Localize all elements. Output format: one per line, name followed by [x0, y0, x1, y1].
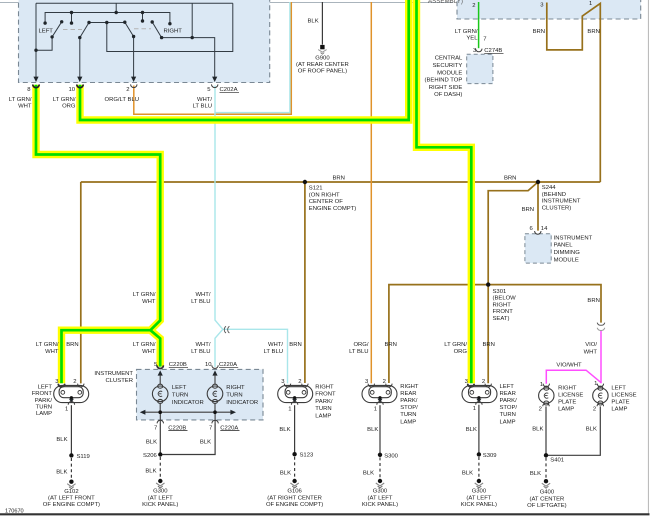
- pin 1 cap: [377, 402, 383, 405]
- svg-text:TURN: TURN: [315, 406, 331, 412]
- svg-text:G300: G300: [373, 489, 388, 495]
- svg-text:FRONT: FRONT: [32, 391, 53, 397]
- entry arrow right: [212, 370, 217, 375]
- wire BLK to G900: [321, 2, 323, 45]
- wire BRN main run S121/S244: [81, 181, 601, 183]
- svg-text:LT GRN/: LT GRN/: [53, 97, 76, 103]
- pin 2 cup: [302, 384, 308, 387]
- pin 1 cup: [543, 384, 549, 387]
- svg-text:WHT/: WHT/: [197, 97, 212, 103]
- svg-text:STOP/: STOP/: [500, 405, 518, 411]
- wire BRN multifunction switch pins 3/1 loop down to S244: [547, 3, 601, 183]
- svg-text:BRN: BRN: [587, 298, 599, 304]
- svg-text:WHT: WHT: [45, 349, 59, 355]
- svg-text:(AT CENTER: (AT CENTER: [529, 496, 564, 502]
- common junction dot: [70, 396, 73, 399]
- connector C202A pin 5 cup: [212, 84, 218, 87]
- svg-text:PARK/: PARK/: [35, 398, 53, 404]
- connector C202A pin 10 cup: [77, 84, 83, 87]
- svg-text:G102: G102: [64, 489, 78, 495]
- filament left: [61, 391, 65, 395]
- svg-text:WHT: WHT: [142, 299, 156, 305]
- wire BRN S301 branch to right rear lamp pin 2 and license feed: [389, 285, 601, 383]
- svg-text:BRN: BRN: [522, 207, 534, 213]
- splice S401: [544, 453, 548, 457]
- svg-text:BLK: BLK: [308, 19, 319, 25]
- svg-text:RIGHT SIDE: RIGHT SIDE: [429, 85, 463, 91]
- svg-text:INSTRUMENT: INSTRUMENT: [542, 199, 581, 205]
- svg-text:7: 7: [483, 37, 486, 43]
- top loop: [598, 386, 603, 390]
- svg-text:2: 2: [482, 379, 485, 385]
- svg-text:5: 5: [207, 87, 211, 93]
- ground G900: [318, 45, 326, 54]
- turn signal switch box (top left): [19, 0, 270, 83]
- svg-text:CLUSTER): CLUSTER): [542, 205, 571, 211]
- svg-text:BLK: BLK: [200, 439, 211, 445]
- svg-text:S309: S309: [483, 453, 497, 459]
- switch blade center (pin 10): [80, 23, 89, 81]
- connector C274B cup: [476, 49, 482, 52]
- filament right: [78, 391, 82, 395]
- svg-text:LAMP: LAMP: [500, 419, 516, 425]
- filament: [544, 393, 548, 398]
- svg-text:TURN: TURN: [36, 404, 52, 410]
- filament right: [386, 391, 390, 395]
- wire BLK S123 to G106 (dashed): [294, 457, 296, 479]
- svg-text:LICENSE: LICENSE: [558, 393, 583, 399]
- svg-text:BLK: BLK: [145, 469, 156, 475]
- svg-text:YEL: YEL: [466, 36, 478, 42]
- svg-text:ORG: ORG: [62, 104, 76, 110]
- instrument panel dimming module box: [525, 234, 551, 263]
- svg-text:G900: G900: [315, 56, 330, 62]
- svg-text:DIMMING: DIMMING: [554, 250, 581, 256]
- wire: B contact stub: [142, 13, 144, 22]
- svg-text:WHT: WHT: [18, 104, 32, 110]
- junction dot left: [158, 410, 162, 414]
- filament right: [485, 391, 489, 395]
- svg-text:1: 1: [288, 407, 291, 413]
- svg-text:KICK PANEL): KICK PANEL): [461, 502, 497, 508]
- pin 1 cup: [597, 384, 603, 387]
- svg-text:(BEHIND TOP: (BEHIND TOP: [425, 78, 463, 84]
- wire: bus line B: [45, 13, 170, 24]
- svg-text:LT BLU: LT BLU: [264, 349, 283, 355]
- pin 3 cup: [284, 384, 290, 387]
- out arrow: [292, 399, 297, 403]
- pin 2 cup: [386, 384, 392, 387]
- heavy cap pin 8: [33, 85, 39, 88]
- wire BRN S244 jog down to S301 and left rear lamp pin 2: [488, 182, 538, 383]
- wire to left turn indicator: [159, 375, 161, 384]
- svg-text:PLATE: PLATE: [611, 400, 629, 406]
- svg-text:G300: G300: [472, 489, 487, 495]
- svg-text:BLK: BLK: [532, 427, 543, 433]
- svg-text:LT GRN/: LT GRN/: [9, 97, 32, 103]
- svg-text:BLK: BLK: [462, 471, 473, 477]
- svg-text:BLK: BLK: [56, 470, 67, 476]
- svg-text:LAMP: LAMP: [36, 411, 52, 417]
- page bottom border: [0, 513, 650, 515]
- wire: A-B tie: [115, 3, 117, 12]
- common junction dot: [378, 396, 381, 399]
- svg-text:BLK: BLK: [466, 427, 477, 433]
- pin 1 cap: [291, 402, 297, 405]
- svg-text:CENTRAL: CENTRAL: [435, 56, 463, 62]
- svg-text:LT BLU: LT BLU: [191, 299, 210, 305]
- svg-text:10: 10: [205, 362, 212, 368]
- svg-text:S121: S121: [309, 186, 323, 192]
- svg-text:OF ROOF PANEL): OF ROOF PANEL): [298, 69, 347, 75]
- svg-text:1: 1: [65, 407, 68, 413]
- wire BLK S300 to G300 (dashed): [379, 457, 381, 478]
- svg-text:6: 6: [530, 226, 534, 232]
- left turn indicator bulb: [152, 386, 168, 402]
- junction dot right: [213, 410, 217, 414]
- svg-text:WHT/: WHT/: [268, 342, 283, 348]
- svg-text:FRONT: FRONT: [493, 309, 514, 315]
- svg-text:2: 2: [383, 379, 386, 385]
- wire BRN S244 to dimming module: [537, 182, 539, 231]
- svg-text:170670: 170670: [5, 509, 24, 515]
- svg-text:ASSEMBLY): ASSEMBLY): [428, 0, 463, 5]
- svg-text:LEFT: LEFT: [172, 385, 187, 391]
- svg-text:LEFT: LEFT: [39, 29, 54, 35]
- svg-text:2: 2: [298, 379, 301, 385]
- switch blade to pin 2: [125, 22, 134, 80]
- svg-text:TURN: TURN: [500, 412, 516, 418]
- svg-text:OF DASH): OF DASH): [434, 92, 462, 98]
- svg-text:G300: G300: [153, 489, 168, 495]
- ground G400: [542, 479, 550, 488]
- svg-text:BLK: BLK: [279, 427, 290, 433]
- dimming module pin 14 cup: [535, 231, 541, 234]
- svg-text:RIGHT: RIGHT: [558, 386, 577, 392]
- wire BLK S119 to G102 (dashed): [70, 458, 72, 479]
- connector C220A pin 10 cup: [212, 365, 218, 368]
- switch contact dots: [34, 11, 194, 52]
- pin 1 cap: [476, 402, 482, 405]
- pin 3 cup: [58, 384, 64, 387]
- pin 3 cup: [468, 384, 474, 387]
- lamp inner envelope: [369, 387, 391, 398]
- common junction dot: [477, 396, 480, 399]
- svg-text:MODULE: MODULE: [437, 70, 462, 76]
- out arrow: [378, 399, 383, 403]
- top loop: [213, 384, 218, 388]
- svg-text:LT BLU: LT BLU: [349, 349, 368, 355]
- svg-text:BLK: BLK: [146, 439, 157, 445]
- svg-text:LAMP: LAMP: [558, 407, 574, 413]
- svg-text:LT GRN/: LT GRN/: [133, 292, 156, 298]
- wire: center contact bar: [89, 22, 125, 24]
- svg-text:CENTER OF: CENTER OF: [309, 199, 343, 205]
- switch blade LEFT: [36, 22, 62, 50]
- common junction dot: [293, 396, 296, 399]
- wire BLK right rear lamp to S300: [379, 405, 381, 455]
- svg-text:RIGHT: RIGHT: [315, 384, 334, 390]
- wire: B contact stub: [71, 13, 73, 24]
- svg-text:BLK: BLK: [530, 471, 541, 477]
- heavy cap cluster pin 5: [157, 366, 163, 369]
- wire LT GRN/ORG pin 10 to top: [80, 0, 409, 120]
- wire VIO/WHT to left license lamp: [600, 331, 602, 384]
- central security module box: [467, 54, 493, 83]
- wire LT GRN/YEL to C274B: [478, 2, 480, 48]
- svg-text:10: 10: [68, 87, 75, 93]
- splice S244: [536, 180, 540, 184]
- svg-text:INDICATOR: INDICATOR: [172, 400, 204, 406]
- splice S300: [378, 453, 382, 457]
- svg-text:LEFT: LEFT: [611, 386, 626, 392]
- arrow left: [140, 410, 146, 415]
- out arrow: [69, 399, 74, 403]
- svg-text:BRN: BRN: [483, 342, 495, 348]
- svg-text:S123: S123: [300, 453, 314, 459]
- svg-text:INDICATOR: INDICATOR: [226, 400, 258, 406]
- svg-text:TURN: TURN: [400, 412, 416, 418]
- svg-text:RIGHT: RIGHT: [400, 384, 419, 390]
- svg-text:REAR: REAR: [500, 391, 516, 397]
- wire ORG/LT BLU from pin 2 up to top: [134, 2, 291, 114]
- svg-text:BLK: BLK: [280, 471, 291, 477]
- highlighted LT GRN wires: yellow halo: [36, 0, 471, 383]
- pin 2 cap: [543, 403, 549, 406]
- lamp inner envelope: [59, 387, 83, 398]
- filament: [598, 393, 602, 398]
- filament left: [286, 391, 290, 395]
- bottom loop: [544, 401, 549, 405]
- svg-text:S401: S401: [550, 458, 564, 464]
- splice S309: [477, 452, 481, 456]
- svg-text:PANEL: PANEL: [554, 243, 574, 249]
- svg-text:SECURITY: SECURITY: [433, 63, 463, 69]
- wire: pin 8 feed drop: [35, 3, 37, 80]
- wire: A drop to right blade common: [191, 3, 193, 37]
- bulb body: [593, 388, 608, 403]
- svg-text:(AT LEFT: (AT LEFT: [466, 495, 491, 501]
- wire below right bulb: [214, 403, 216, 412]
- svg-text:2: 2: [126, 87, 129, 93]
- svg-text:LT BLU: LT BLU: [193, 104, 212, 110]
- svg-text:VIO/WHT: VIO/WHT: [556, 363, 582, 369]
- connector C220B pin 7 cap: [157, 420, 163, 423]
- splice S119: [69, 453, 73, 457]
- svg-text:OF ENGINE COMPT): OF ENGINE COMPT): [266, 502, 323, 508]
- svg-text:BRN: BRN: [504, 176, 516, 182]
- instrument cluster box: [137, 369, 264, 420]
- svg-text:2: 2: [593, 406, 596, 412]
- wire: A right end drop and return to center contact: [107, 3, 233, 51]
- ground G300 (right rear): [376, 479, 384, 488]
- svg-text:ORG/LT BLU: ORG/LT BLU: [105, 97, 139, 103]
- svg-text:7: 7: [209, 425, 212, 431]
- highlight: pin 8 circuit: [36, 85, 160, 383]
- lamp inner envelope: [285, 387, 307, 398]
- svg-text:1: 1: [374, 407, 377, 413]
- wire right pin 7 drop: [214, 412, 216, 424]
- svg-text:FRONT: FRONT: [315, 392, 336, 398]
- top loop: [158, 384, 163, 388]
- filament left: [370, 391, 374, 395]
- ground G300 (left rear): [475, 479, 483, 488]
- svg-text:SEAT): SEAT): [493, 316, 510, 322]
- svg-text:WHT/: WHT/: [195, 342, 210, 348]
- lamp body: [278, 385, 313, 402]
- wire to right turn indicator: [214, 375, 216, 384]
- svg-text:BRN: BRN: [533, 29, 545, 35]
- svg-text:S244: S244: [542, 185, 556, 191]
- splice S121: [303, 180, 307, 184]
- wire BLK left front lamp to S119: [70, 405, 72, 455]
- wire BLK left license lamp to S401: [548, 406, 600, 455]
- svg-text:REAR: REAR: [400, 391, 416, 397]
- svg-text:STOP/: STOP/: [400, 405, 418, 411]
- connector C220B pin 5 cup: [157, 365, 163, 368]
- svg-text:G400: G400: [540, 490, 555, 496]
- svg-text:S119: S119: [77, 454, 90, 460]
- svg-text:BLK: BLK: [363, 470, 374, 476]
- svg-text:CLUSTER: CLUSTER: [106, 378, 134, 384]
- svg-text:ORG/: ORG/: [353, 342, 368, 348]
- svg-text:TURN: TURN: [226, 393, 242, 399]
- entry arrow left: [158, 370, 163, 375]
- svg-text:LT GRN/: LT GRN/: [133, 342, 156, 348]
- wire BRN S121 to right front park lamp pin 2: [304, 182, 306, 383]
- splice S301: [486, 282, 490, 286]
- pin 2 cup: [78, 384, 84, 387]
- splice S206: [158, 452, 162, 456]
- wire BLK right license lamp to S401: [545, 406, 547, 455]
- bulb body: [539, 388, 554, 403]
- svg-text:BLK: BLK: [56, 437, 67, 443]
- svg-text:1: 1: [594, 381, 597, 387]
- cut line across top of page: [0, 2, 453, 4]
- wire: bus line A: [36, 2, 233, 4]
- wire WHT/LT BLU from pin 5 down with split to cluster pin 10: [215, 86, 288, 384]
- svg-text:(AT REAR CENTER: (AT REAR CENTER: [296, 62, 349, 68]
- pin 2 cap: [597, 403, 603, 406]
- svg-text:2: 2: [73, 379, 76, 385]
- svg-text:WHT: WHT: [584, 350, 598, 356]
- svg-text:(BELOW: (BELOW: [493, 296, 517, 302]
- wire BLK right front lamp to S123: [294, 405, 296, 454]
- svg-text:LT GRN/: LT GRN/: [36, 342, 59, 348]
- pin 3 cup: [368, 384, 374, 387]
- WHT/LT BLU split chevron: [224, 326, 229, 333]
- wire BRN to left front park lamp pin 2: [80, 182, 82, 383]
- heavy cap left front pin 3: [58, 384, 64, 387]
- wire below left bulb: [159, 403, 161, 412]
- svg-text:(AT LEFT FRONT: (AT LEFT FRONT: [48, 496, 95, 502]
- svg-text:(AT LEFT: (AT LEFT: [148, 495, 173, 501]
- svg-text:WHT: WHT: [142, 349, 156, 355]
- in-line connector on license feed: [597, 323, 605, 331]
- svg-text:BLK: BLK: [586, 427, 597, 433]
- svg-text:S300: S300: [384, 454, 398, 460]
- svg-text:8: 8: [27, 87, 31, 93]
- svg-text:KICK PANEL): KICK PANEL): [142, 502, 178, 508]
- svg-text:(AT LEFT: (AT LEFT: [368, 495, 393, 501]
- pin 1 cap: [68, 402, 74, 405]
- svg-text:2: 2: [472, 3, 475, 9]
- svg-text:ENGINE COMPT): ENGINE COMPT): [309, 206, 356, 212]
- out arrow: [476, 399, 481, 403]
- svg-text:KICK PANEL): KICK PANEL): [362, 502, 398, 508]
- highlight: left rear lamp circuit: [417, 0, 472, 383]
- svg-text:RIGHT: RIGHT: [493, 302, 512, 308]
- wire WHT/LT BLU pair run to top: [215, 2, 290, 113]
- wire BLK cluster right pin 7 to S206: [163, 424, 216, 455]
- filament: [158, 391, 162, 396]
- filament right: [302, 391, 306, 395]
- svg-text:14: 14: [541, 226, 548, 232]
- svg-text:7: 7: [154, 425, 157, 431]
- wire LT GRN/ORG top to left rear lamp pin 3: [417, 0, 472, 383]
- multifunction switch box (top right, cut off): [457, 0, 641, 19]
- svg-text:VIO/: VIO/: [585, 342, 597, 348]
- svg-text:INSTRUMENT: INSTRUMENT: [554, 235, 593, 241]
- heavy cap left rear pin 3: [468, 384, 474, 387]
- svg-text:BRN: BRN: [333, 176, 345, 182]
- lamp inner envelope: [469, 387, 491, 398]
- wire left pin 7 drop: [159, 412, 161, 424]
- box exit arrows: [33, 77, 217, 82]
- svg-text:BRN: BRN: [66, 342, 78, 348]
- highlight: pin 10 circuit: [80, 0, 409, 120]
- filament left: [470, 391, 474, 395]
- svg-text:LT GRN/: LT GRN/: [444, 342, 467, 348]
- wire VIO/WHT link between license lamps: [546, 370, 601, 384]
- wire BLK S309 to G300 (dashed): [478, 457, 480, 479]
- arrow right: [230, 410, 236, 415]
- svg-text:ORG: ORG: [454, 349, 468, 355]
- svg-text:RIGHT: RIGHT: [226, 385, 245, 391]
- wire LT GRN/WHT pin 8 to left front lamp / cluster pin 5: [36, 85, 160, 383]
- ground G300 (cluster): [156, 479, 164, 488]
- ground G102: [67, 480, 75, 489]
- svg-text:TURN: TURN: [172, 393, 188, 399]
- right turn indicator bulb: [207, 386, 223, 402]
- splice S123: [292, 452, 296, 456]
- svg-text:LEFT: LEFT: [38, 385, 53, 391]
- page right border: [647, 0, 649, 514]
- svg-text:PLATE: PLATE: [558, 400, 576, 406]
- svg-text:OF ENGINE COMPT): OF ENGINE COMPT): [43, 502, 100, 508]
- wire BLK cluster left pin 7 to S206: [159, 424, 161, 455]
- ground G106: [290, 479, 298, 488]
- svg-text:1: 1: [589, 1, 592, 7]
- bottom loop: [158, 399, 163, 403]
- wire BLK left rear lamp to S309: [478, 405, 480, 455]
- svg-text:LAMP: LAMP: [611, 407, 627, 413]
- svg-text:PARK/: PARK/: [500, 398, 518, 404]
- svg-text:2: 2: [539, 406, 542, 412]
- svg-text:1: 1: [473, 406, 476, 412]
- svg-text:OF LIFTGATE): OF LIFTGATE): [527, 503, 567, 509]
- bottom loop: [598, 401, 603, 405]
- lamp body: [462, 385, 497, 402]
- mechanical linkage dashes: [63, 29, 82, 31]
- lamp body: [54, 385, 89, 402]
- svg-text:LEFT: LEFT: [500, 384, 515, 390]
- svg-text:WHT/: WHT/: [195, 292, 210, 298]
- pin 2 cup: [485, 384, 491, 387]
- svg-text:S301: S301: [493, 289, 507, 295]
- green cores of highlighted wires: [36, 0, 471, 383]
- lamp body: [362, 385, 397, 402]
